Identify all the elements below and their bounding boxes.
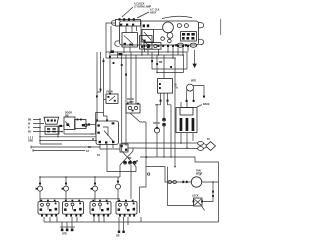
door switch	[64, 113, 87, 130]
svg-text:FU: FU	[207, 139, 210, 141]
svg-text:LOCK: LOCK	[192, 196, 199, 198]
door cluster wires	[39, 113, 96, 138]
circle d	[161, 37, 165, 41]
sensor box M-TH	[155, 72, 187, 108]
svg-text:A.T. CLK: A.T. CLK	[150, 9, 160, 12]
fan motor	[146, 166, 219, 187]
pilot circle a	[177, 24, 181, 28]
svg-text:LT OVEN LAMP: LT OVEN LAMP	[134, 5, 151, 8]
svg-text:GR: GR	[116, 236, 120, 238]
right side return wires	[140, 156, 219, 222]
indicator lights	[36, 177, 121, 202]
crossover wires	[120, 143, 198, 199]
label: A-CLOCK callout	[122, 3, 151, 17]
bake element assembly	[176, 103, 210, 133]
svg-text:BK: BK	[128, 158, 132, 160]
relay K2	[140, 36, 152, 49]
terminal box under plug	[45, 126, 59, 134]
lamp return wire	[145, 122, 147, 167]
bail right top	[198, 23, 203, 28]
svg-text:BK: BK	[28, 120, 32, 122]
display DS1	[181, 32, 197, 41]
connector J1	[144, 43, 161, 50]
thermostat S1	[96, 92, 119, 121]
wire label blobs left of bus	[110, 50, 122, 55]
wire: selector feeds	[96, 112, 98, 121]
connector J2 ovals	[175, 43, 197, 47]
lower-left long wires	[31, 139, 100, 153]
relay K3 inside clock	[143, 24, 145, 27]
connector ticks mid verticals	[151, 60, 172, 68]
relay K1	[115, 33, 138, 47]
svg-text:M.: M.	[175, 84, 178, 86]
svg-text:ASSY: ASSY	[150, 11, 157, 14]
svg-text:BAKE: BAKE	[203, 103, 210, 106]
long vertical wires center	[96, 52, 187, 167]
clock terminal pins	[143, 45, 189, 47]
selector switch	[96, 121, 118, 144]
bail right bottom	[198, 39, 203, 44]
burner switch SW1	[38, 200, 59, 217]
svg-text:BR: BR	[159, 62, 163, 64]
secondary bus	[40, 198, 120, 200]
bus wires under clock	[106, 47, 188, 59]
svg-text:MTR: MTR	[191, 80, 196, 82]
svg-text:FAN: FAN	[196, 170, 201, 173]
wire: selector bottom leads	[100, 144, 120, 171]
door lock	[168, 167, 214, 211]
svg-text:OVEN: OVEN	[127, 99, 134, 101]
circle e	[168, 39, 172, 43]
svg-text:1 2 3: 1 2 3	[28, 138, 34, 140]
burner switch SW4	[116, 200, 137, 217]
wire: lower link	[107, 171, 136, 173]
oven lamp bulb	[153, 123, 160, 157]
motor M2	[186, 80, 205, 102]
svg-text:OVEN: OVEN	[153, 123, 160, 125]
power lead labels	[28, 118, 63, 144]
diamond thermal fuse	[206, 142, 216, 151]
burner switch SW2	[63, 200, 84, 217]
svg-text:HTR: HTR	[62, 234, 67, 236]
clock motor circle	[163, 22, 174, 33]
burner switch SW3	[90, 200, 111, 217]
circle c	[167, 33, 173, 39]
ground arrow	[192, 50, 196, 68]
svg-text:A CLOCK: A CLOCK	[134, 3, 145, 6]
svg-text:BK: BK	[88, 147, 92, 149]
terminal strip TB1	[111, 18, 140, 26]
wire: strip to relay K1	[126, 26, 136, 33]
clock assembly U1	[120, 21, 204, 45]
reference mark right	[220, 19, 222, 35]
pilot circle b	[184, 24, 188, 28]
inline connector pair mid	[163, 118, 166, 157]
under-switch wiring	[44, 217, 219, 238]
svg-text:GRD: GRD	[28, 141, 33, 143]
plug P1	[44, 117, 59, 124]
inline connector CN2	[120, 144, 128, 152]
bake leads and fuse	[180, 133, 215, 151]
wire: strip left feed down	[106, 23, 116, 58]
svg-text:DOOR: DOOR	[65, 113, 72, 115]
label: AT CLK callout	[137, 9, 192, 19]
oven lamp switch	[126, 99, 146, 122]
main burner bus	[39, 176, 120, 178]
svg-text:GY: GY	[86, 151, 90, 153]
svg-text:BU: BU	[28, 132, 32, 134]
svg-text:TH.: TH.	[175, 88, 179, 90]
